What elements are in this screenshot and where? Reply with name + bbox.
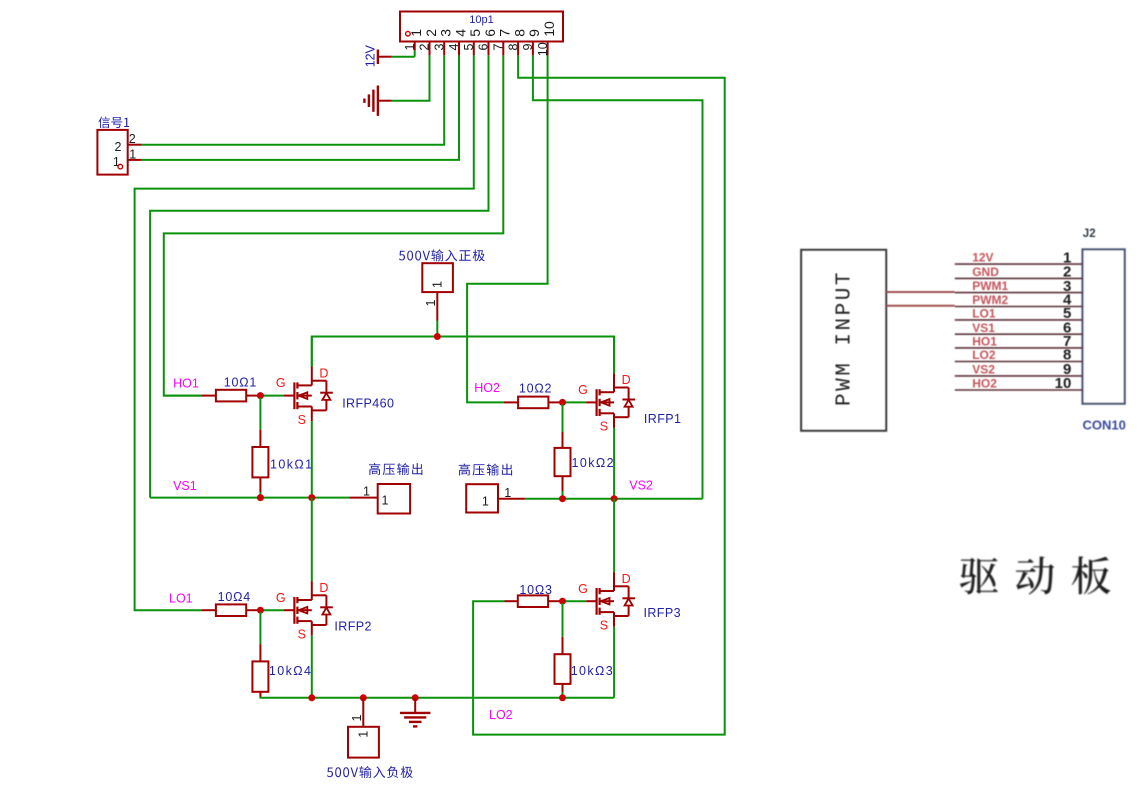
svg-text:HO2: HO2 (474, 381, 500, 395)
junction 500V+ bus (434, 333, 441, 340)
port 高压输出 left label (369, 463, 422, 475)
wire pin1 to 12V (392, 51, 415, 57)
port 高压输出 right label (459, 464, 512, 476)
svg-text:8: 8 (506, 44, 520, 51)
connector 10p1 outside pin numbers 1-10 (403, 42, 550, 56)
wire source Q2 to VS2 (613, 428, 615, 499)
wire source Q3 to bus (311, 636, 313, 698)
svg-text:LO1: LO1 (972, 307, 996, 321)
svg-text:1: 1 (482, 495, 489, 509)
title 驱动板 (960, 556, 1111, 594)
port 高压输出 right box (466, 484, 498, 512)
resistor 10Ω1 body (216, 390, 246, 402)
svg-text:PWM2: PWM2 (972, 293, 1008, 307)
svg-text:2: 2 (418, 44, 432, 51)
svg-text:LO2: LO2 (972, 348, 996, 362)
port 高压输出 left pin (349, 497, 377, 499)
resistor 10kΩ3 body (555, 654, 571, 684)
resistor 10kΩ3 label (571, 664, 614, 678)
svg-text:7: 7 (492, 44, 506, 51)
svg-text:G: G (276, 591, 286, 605)
junction gate R1 (257, 392, 264, 399)
svg-text:10Ω2: 10Ω2 (519, 382, 552, 396)
connector 10p1 refdes label (469, 14, 493, 26)
svg-text:IRFP1: IRFP1 (644, 412, 681, 426)
wire R3 to gate (563, 600, 597, 602)
power symbol 12V bar (378, 50, 392, 65)
transistor Q4 G D S labels (578, 572, 631, 633)
svg-text:1: 1 (363, 484, 370, 498)
transistor Q2 name IRFP1 (644, 412, 681, 426)
port 500V输入正极 pin number 1 (424, 300, 438, 307)
wire pin9 VS2 net (533, 55, 703, 498)
svg-text:LO1: LO1 (169, 592, 193, 606)
net label HO1 (173, 376, 199, 390)
junction VS1 R (257, 494, 264, 501)
transistor Q3 G D S labels (276, 581, 329, 642)
port 500V输入正极 label (399, 249, 485, 261)
svg-text:10kΩ4: 10kΩ4 (269, 664, 312, 678)
svg-text:7: 7 (497, 29, 513, 37)
resistor 10Ω3 body (518, 595, 548, 607)
resistor 10kΩ1 bottom lead (259, 477, 261, 497)
wire 500V+ top bus (312, 337, 614, 374)
svg-text:1: 1 (129, 147, 136, 161)
svg-text:9: 9 (521, 44, 535, 51)
resistor 10kΩ4 body (252, 661, 268, 691)
connector 信号1 pin-1 polarity circle (118, 164, 123, 169)
svg-text:PWM1: PWM1 (972, 279, 1008, 293)
port 500V输入负极 label (327, 766, 413, 778)
port 500V输入负极 pin number 1 (350, 715, 364, 722)
resistor 10Ω1 label (224, 376, 257, 390)
resistor 10Ω4 label (218, 590, 251, 604)
resistor 10Ω1 leads (201, 395, 260, 397)
wire R2 to gate (563, 401, 597, 403)
resistor 10kΩ2 top lead (562, 404, 564, 448)
svg-text:1: 1 (424, 300, 438, 307)
svg-text:10kΩ1: 10kΩ1 (270, 457, 313, 471)
svg-text:G: G (578, 582, 588, 596)
resistor 10kΩ2 label (572, 456, 615, 470)
transistor Q2 G D S labels (578, 373, 631, 434)
svg-text:G: G (578, 383, 588, 397)
svg-text:HO1: HO1 (173, 376, 199, 390)
resistor 10Ω4 leads (201, 609, 260, 611)
wire R4 to gate (260, 609, 294, 611)
port 500V输入负极 pin (362, 698, 364, 727)
junction bus 10kΩ3 (559, 694, 566, 701)
junction VS1 Q1 source (308, 494, 315, 501)
resistor 10kΩ3 bottom lead (562, 684, 564, 698)
junction VS2 R (559, 495, 566, 502)
junction bus ground (412, 694, 419, 701)
resistor 10kΩ1 top lead (259, 398, 261, 448)
resistor 10kΩ1 label (270, 457, 313, 471)
connector J2 label (1083, 228, 1096, 240)
svg-text:IRFP2: IRFP2 (334, 620, 371, 634)
svg-text:2: 2 (423, 29, 439, 37)
PWM INPUT rotated text (834, 270, 857, 406)
connector 10p1 pin-1 polarity circle (406, 31, 411, 36)
power label 12V (364, 44, 378, 67)
svg-text:1: 1 (403, 44, 417, 51)
transistor Q4 name IRFP3 (644, 606, 681, 620)
wire drain Q2 (613, 337, 615, 374)
transistor Q1 name IRFP460 (342, 397, 394, 411)
svg-text:IRFP460: IRFP460 (342, 397, 394, 411)
port 高压输出 left inside number 1 (382, 494, 389, 508)
svg-text:10kΩ3: 10kΩ3 (571, 664, 614, 678)
svg-text:D: D (622, 572, 631, 586)
resistor 10Ω2 body (518, 397, 548, 409)
svg-text:10kΩ2: 10kΩ2 (572, 456, 615, 470)
resistor 10kΩ2 body (555, 448, 571, 476)
wire drain Q4 from VS2 (613, 499, 615, 572)
junction bus Q3 source (308, 694, 315, 701)
svg-text:VS2: VS2 (629, 478, 653, 492)
resistor 10kΩ4 top lead (259, 612, 261, 661)
wire pin8 LO2 net (473, 55, 725, 734)
svg-text:5: 5 (462, 44, 476, 51)
wire R to gate (260, 395, 294, 397)
resistor 10kΩ1 body (252, 447, 268, 477)
wire 500V- bottom bus (260, 697, 614, 699)
wire source Q1 to VS1 (311, 421, 313, 498)
svg-text:D: D (319, 581, 328, 595)
svg-text:D: D (622, 373, 631, 387)
svg-text:S: S (298, 627, 306, 641)
wire pin6 VS1 net (150, 55, 488, 497)
junction bus 500V- pin (360, 694, 367, 701)
port 500V输入正极 pin (436, 292, 438, 336)
svg-text:5: 5 (467, 29, 483, 37)
wire pin5 LO1 net (135, 55, 474, 610)
port 500V输入正极 box (422, 263, 453, 292)
port 500V输入负极 inside number 1 (356, 731, 370, 738)
svg-text:2: 2 (129, 132, 136, 146)
svg-text:1: 1 (431, 281, 445, 288)
svg-text:9: 9 (526, 29, 542, 37)
transistor Q3 name IRFP2 (334, 620, 371, 634)
ground symbol (top, rotated left) (364, 86, 391, 116)
transistor Q4 IRFP3 (597, 572, 635, 627)
port 500V输入负极 box (348, 727, 379, 758)
net label LO2 (489, 708, 513, 722)
net label HO2 (474, 381, 500, 395)
port 高压输出 left box (378, 484, 410, 514)
svg-text:1: 1 (356, 731, 370, 738)
svg-text:2: 2 (115, 140, 122, 154)
svg-text:S: S (298, 413, 306, 427)
svg-text:1: 1 (382, 494, 389, 508)
svg-text:S: S (600, 420, 608, 434)
svg-text:6: 6 (482, 29, 498, 37)
net label VS1 (173, 479, 197, 493)
resistor 10kΩ3 top lead (562, 603, 564, 654)
resistor 10Ω3 leads (505, 600, 563, 602)
wire VS2 row (525, 498, 703, 500)
svg-text:1: 1 (504, 486, 511, 500)
svg-text:10: 10 (536, 42, 550, 56)
svg-text:VS1: VS1 (173, 479, 197, 493)
connector 信号1 pin stubs (128, 145, 142, 160)
port 高压输出 right pin number 1 (504, 486, 511, 500)
svg-text:GND: GND (972, 265, 999, 279)
junction gate R4 (257, 607, 264, 614)
svg-text:12V: 12V (972, 251, 993, 265)
net label LO1 (169, 592, 193, 606)
transistor Q1 G D S labels (276, 366, 329, 427)
svg-text:IRFP3: IRFP3 (644, 606, 681, 620)
svg-text:1: 1 (113, 155, 120, 169)
resistor 10kΩ4 label (269, 664, 312, 678)
connector 信号1 refdes label (98, 117, 129, 129)
junction gate R2 (559, 399, 566, 406)
svg-text:3: 3 (438, 29, 454, 37)
svg-text:6: 6 (477, 44, 491, 51)
wire drain Q3 from VS1 (311, 498, 313, 581)
svg-text:4: 4 (452, 29, 468, 37)
svg-text:J2: J2 (1083, 228, 1096, 240)
resistor 10kΩ2 bottom lead (562, 476, 564, 499)
svg-text:8: 8 (511, 29, 527, 37)
connector 信号1 outside pin numbers (129, 132, 136, 161)
resistor 10Ω4 body (216, 604, 246, 616)
svg-text:HO2: HO2 (972, 377, 997, 391)
net label VS2 (629, 478, 653, 492)
svg-text:10Ω1: 10Ω1 (224, 376, 257, 390)
svg-text:PWM INPUT: PWM INPUT (834, 270, 857, 406)
svg-text:10: 10 (1055, 375, 1072, 392)
connector 10p1 inside pin numbers 1-10 (408, 21, 557, 37)
connector J2 type label CON10 (1083, 418, 1126, 433)
connector 10p1 body (400, 12, 563, 42)
port 高压输出 right pin (498, 498, 525, 500)
connector J2 pin rows with net labels and numbers (955, 249, 1083, 392)
svg-text:G: G (276, 376, 286, 390)
svg-text:VS2: VS2 (972, 363, 995, 377)
svg-text:10: 10 (541, 21, 557, 37)
svg-text:S: S (600, 618, 608, 632)
wire pin2 to ground (392, 55, 430, 100)
transistor Q1 IRFP460 (294, 367, 332, 422)
connector J2 body (1083, 249, 1125, 403)
wire drain Q1 (311, 337, 313, 367)
svg-text:LO2: LO2 (489, 708, 513, 722)
svg-text:HO1: HO1 (972, 335, 997, 349)
svg-text:1: 1 (350, 715, 364, 722)
resistor 10Ω2 label (519, 382, 552, 396)
wire VS1 row (150, 497, 349, 499)
junction VS2 Q2 source (611, 495, 618, 502)
wires PWM INPUT to J2 (886, 292, 955, 306)
transistor Q3 IRFP2 (294, 581, 332, 636)
connector 10p1 pin stubs (415, 42, 548, 56)
PWM INPUT box (801, 250, 886, 431)
svg-text:1: 1 (408, 29, 424, 37)
ground symbol (bottom) (400, 698, 430, 727)
svg-text:12V: 12V (364, 44, 378, 67)
port 500V输入正极 inside pin number 1 (431, 281, 445, 288)
port 高压输出 right inside number 1 (482, 495, 489, 509)
svg-text:10p1: 10p1 (469, 14, 493, 26)
svg-text:VS1: VS1 (972, 321, 995, 335)
port 高压输出 left pin number 1 (363, 484, 370, 498)
wire pin7 HO1 net (164, 55, 504, 395)
svg-text:CON10: CON10 (1083, 418, 1126, 433)
resistor 10Ω3 label (519, 583, 552, 597)
wire pin4 to 信号1 pin1 (142, 55, 459, 159)
wire pin3 to 信号1 pin2 (142, 55, 445, 144)
svg-text:D: D (319, 366, 328, 380)
svg-text:4: 4 (447, 44, 461, 51)
svg-text:10Ω4: 10Ω4 (218, 590, 251, 604)
wire pin10 HO2 net (467, 55, 547, 402)
transistor Q2 IRFP1 (597, 373, 635, 428)
resistor 10Ω2 leads (504, 401, 563, 403)
junction gate R3 (559, 598, 566, 605)
svg-text:3: 3 (432, 44, 446, 51)
connector 信号1 inside pin numbers (113, 140, 122, 169)
connector 信号1 body (97, 130, 127, 175)
resistor 10kΩ4 bottom lead (259, 692, 261, 698)
wire HO1 to R (164, 395, 202, 397)
wire source Q4 to bus (613, 627, 615, 698)
